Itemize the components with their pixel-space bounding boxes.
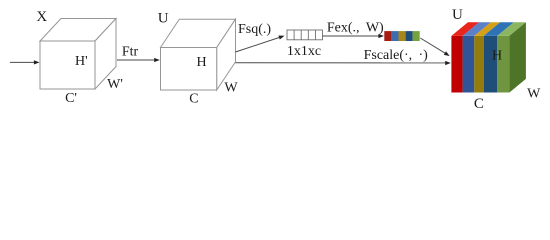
- svg-text:C: C: [189, 92, 198, 107]
- svg-text:1x1xc: 1x1xc: [287, 44, 321, 59]
- svg-text:C': C': [65, 91, 77, 106]
- cube U (feature map tensor): [161, 19, 236, 90]
- svg-text:H': H': [75, 54, 88, 69]
- svg-text:W: W: [224, 81, 238, 96]
- svg-text:U: U: [158, 11, 169, 27]
- node channel weight bar (5 colored cells): [384, 31, 419, 41]
- wire Fscale arrow from cube U to output cube: [236, 61, 451, 65]
- svg-text:Fsq(.): Fsq(.): [238, 22, 271, 37]
- wire Fex excitation arrow from vector to weight bar: [323, 34, 385, 38]
- svg-text:C: C: [474, 96, 484, 112]
- svg-text:H: H: [492, 49, 502, 64]
- svg-text:Ftr: Ftr: [122, 45, 139, 60]
- svg-text:W: W: [527, 87, 541, 102]
- svg-text:U: U: [452, 7, 463, 23]
- cube U~ output tensor (colored channel slabs): [451, 22, 526, 92]
- svg-text:Fex(., W): Fex(., W): [327, 21, 384, 36]
- svg-text:X: X: [36, 9, 47, 25]
- svg-text:H: H: [196, 55, 206, 70]
- node 1x1xc squeeze vector (5 cells): [287, 30, 323, 40]
- wire input arrow into cube X: [10, 60, 40, 64]
- wire Ftr arrow from cube X to cube U: [117, 58, 160, 62]
- top face stripes: [451, 22, 479, 36]
- wire arrow from weight bar to output cube: [420, 38, 449, 56]
- front face stripes: [451, 36, 462, 93]
- svg-text:Fscale(·, ·): Fscale(·, ·): [364, 48, 429, 63]
- cube X (input tensor): [40, 19, 116, 90]
- svg-text:W': W': [107, 77, 123, 92]
- right side face: [509, 22, 526, 92]
- wire Fsq squeeze arrow from cube U to 1x1xc vector: [236, 36, 285, 53]
